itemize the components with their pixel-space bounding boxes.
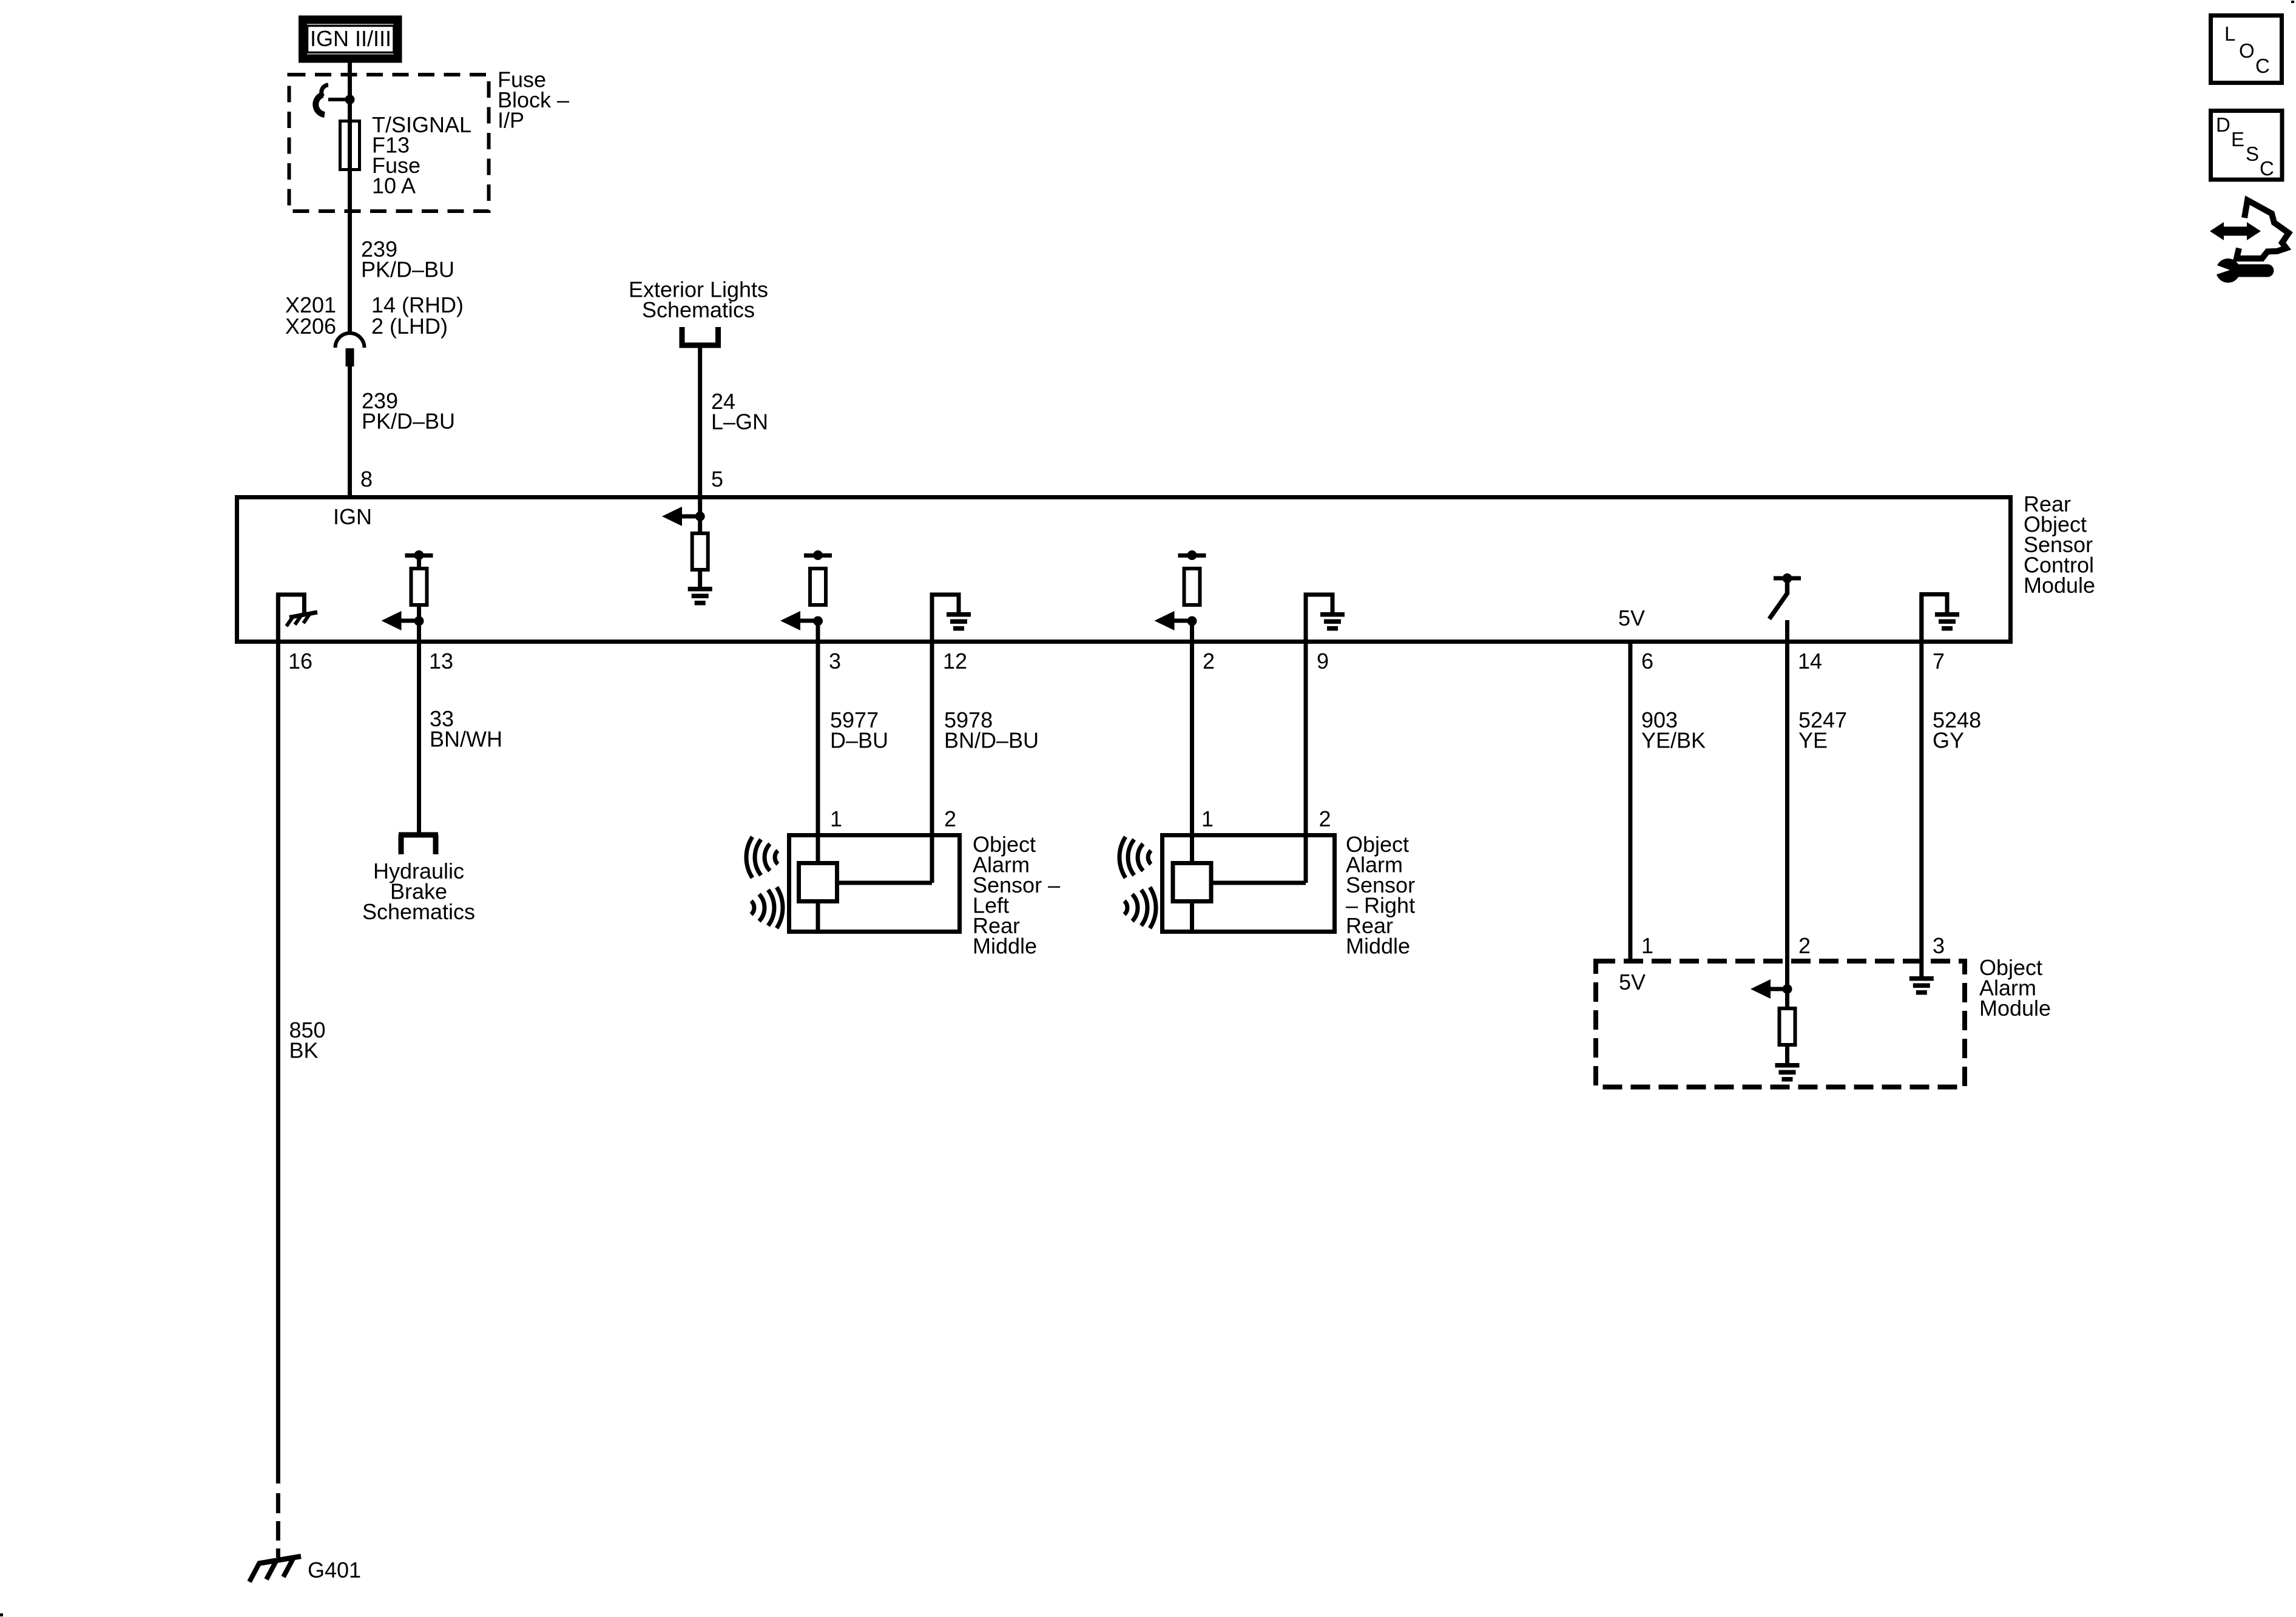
svg-text:Module: Module: [1979, 996, 2051, 1021]
internal ground at pin 12: [947, 612, 971, 631]
junction dot pin 5: [695, 511, 705, 521]
pin 5: [711, 467, 723, 491]
wire 5978 BN/D-BU from pin 12 to sensor: [930, 595, 934, 883]
svg-text:C: C: [2260, 157, 2274, 180]
svg-text:S: S: [2246, 143, 2259, 165]
junction dot pin 13 bottom: [414, 616, 424, 626]
pin 9 internal ground elbow: [1306, 595, 1332, 643]
wire from pin 9 to right sensor: [1304, 595, 1308, 883]
label Object Alarm Module: [1979, 955, 2051, 1021]
module pin 1: [1641, 933, 1653, 958]
svg-text:BK: BK: [289, 1038, 319, 1063]
label T/SIGNAL F13 Fuse 10 A: [372, 112, 471, 198]
svg-text:7: 7: [1933, 649, 1945, 673]
label connector X201 X206: [285, 292, 336, 339]
wire 903 YE/BK from pin 6: [1628, 641, 1632, 961]
label 5248 GY: [1933, 707, 1981, 753]
label Rear Object Sensor Control Module: [2024, 491, 2095, 598]
sensor element square: [1173, 863, 1211, 902]
junction dot pin 13 top: [414, 550, 424, 560]
module pin 3: [1933, 933, 1945, 958]
sensor internal link wire: [839, 881, 932, 885]
svg-text:5V: 5V: [1619, 970, 1646, 994]
label 24 L-GN: [711, 389, 768, 434]
internal signal arrow at pin 13: [382, 611, 419, 630]
internal resistor at pin 3: [810, 569, 826, 605]
pin 8: [360, 467, 373, 491]
junction dot pin 3 top: [813, 550, 823, 560]
svg-text:YE/BK: YE/BK: [1641, 728, 1706, 753]
label Object Alarm Sensor - Right Rear Middle: [1346, 832, 1415, 959]
wire 5247 YE from pin 14: [1785, 620, 1789, 1064]
fuse F13 T/SIGNAL 10 A: [340, 121, 360, 170]
pin 7: [1933, 649, 1945, 673]
pin 2 internal 5V tap bar: [1178, 553, 1206, 558]
pin 12 internal ground elbow: [932, 595, 959, 643]
svg-text:16: 16: [288, 649, 312, 673]
svg-text:13: 13: [429, 649, 453, 673]
junction dot pin 14 switch: [1783, 573, 1792, 583]
label Exterior Lights Schematics: [629, 277, 768, 323]
svg-text:G401: G401: [308, 1558, 361, 1582]
internal signal arrow in object alarm module: [1751, 979, 1788, 999]
internal resistor at pin 2: [1184, 569, 1200, 605]
internal signal arrow at pin 3: [780, 611, 818, 630]
svg-text:3: 3: [829, 649, 841, 673]
junction dot pin 3 bottom: [813, 616, 823, 626]
wire 850 BK from pin 16 to G401: [276, 595, 280, 1558]
power tag IGN II/III: [303, 20, 398, 59]
ultrasonic waves lower (right sensor): [1124, 887, 1156, 928]
junction dot at fuse input: [345, 95, 355, 104]
internal signal arrow at pin 5: [662, 507, 700, 526]
svg-text:Schematics: Schematics: [642, 297, 755, 322]
off-page connector to Hydraulic Brake Schematics: [399, 835, 438, 854]
wire 33 BN/WH from pin 13: [417, 643, 421, 832]
svg-text:Middle: Middle: [1346, 934, 1410, 959]
LOC reference box: [2211, 16, 2282, 83]
pin 6: [1641, 649, 1653, 673]
sensor pin 2: [944, 806, 956, 831]
svg-text:D–BU: D–BU: [830, 728, 888, 753]
Object Alarm Sensor - Right Rear Middle box: [1163, 836, 1335, 932]
label 903 YE/BK: [1641, 707, 1706, 753]
svg-text:9: 9: [1317, 649, 1329, 673]
label Fuse Block - I/P: [498, 67, 569, 133]
label 5247 YE: [1798, 707, 1847, 753]
pin 16: [288, 649, 312, 673]
wire 239 from IGN II/III tag through fuse F13 to connector X201: [348, 62, 352, 334]
net IGN inside module: [333, 504, 372, 529]
label pins 14 (RHD) 2 (LHD): [371, 292, 464, 339]
DESC reference box: [2211, 111, 2283, 180]
fuse block I/P dashed outline: [289, 75, 489, 211]
svg-text:L: L: [2224, 22, 2235, 45]
sensor pin 1: [1201, 806, 1214, 831]
svg-text:GY: GY: [1933, 728, 1964, 753]
sensor internal link wire: [1214, 881, 1306, 885]
wire 5977 D-BU from pin 3 to sensor: [816, 621, 820, 930]
svg-text:BN/WH: BN/WH: [430, 727, 502, 752]
svg-text:X206: X206: [285, 314, 336, 339]
internal resistor at pin 13: [411, 569, 427, 605]
svg-text:8: 8: [360, 467, 373, 491]
svg-text:E: E: [2231, 128, 2244, 150]
internal resistor at pin 5: [692, 533, 708, 570]
off-page connector from Exterior Lights: [680, 327, 721, 345]
svg-text:BN/D–BU: BN/D–BU: [944, 728, 1039, 753]
label Object Alarm Sensor - Left Rear Middle: [973, 832, 1060, 959]
pin 9: [1317, 649, 1329, 673]
svg-text:1: 1: [830, 806, 842, 831]
internal signal arrow at pin 2: [1155, 611, 1192, 630]
label 5977 D-BU: [830, 707, 888, 753]
ground G401 chassis symbol: [249, 1556, 301, 1582]
svg-text:5V: 5V: [1618, 606, 1645, 630]
pin 13 internal wire: [417, 555, 421, 643]
pin 3 internal 5V tap bar: [804, 553, 832, 558]
internal resistor in object alarm module: [1780, 1008, 1795, 1045]
svg-text:Schematics: Schematics: [362, 899, 475, 924]
pin 14: [1798, 649, 1822, 673]
svg-text:PK/D–BU: PK/D–BU: [361, 257, 454, 282]
svg-text:PK/D–BU: PK/D–BU: [362, 409, 455, 434]
wire from pin 2 to right sensor: [1190, 621, 1194, 930]
svg-text:3: 3: [1933, 933, 1945, 958]
corner mark bottom left: [0, 1613, 3, 1616]
svg-text:2: 2: [944, 806, 956, 831]
pin 3: [829, 649, 841, 673]
internal ground in object alarm module: [1775, 1063, 1800, 1082]
Object Alarm Module dashed box: [1596, 961, 1965, 1087]
ultrasonic waves upper (right sensor): [1119, 837, 1151, 878]
junction dot pin 2 bottom: [1187, 616, 1197, 626]
junction dot in object alarm module: [1783, 984, 1792, 994]
internal ground at pin 9: [1320, 612, 1345, 631]
svg-text:Middle: Middle: [973, 934, 1037, 959]
svg-text:YE: YE: [1798, 728, 1828, 753]
wire 5248 GY from pin 7: [1919, 595, 1923, 978]
internal ground at pin 5: [688, 587, 712, 606]
svg-text:5: 5: [711, 467, 723, 491]
pin 16 internal chassis ground elbow: [278, 595, 304, 641]
junction dot pin 2 top: [1187, 550, 1197, 560]
wire 24 L-GN to module pin 5: [698, 348, 702, 498]
label 239 PK/D-BU (upper): [361, 237, 454, 282]
label G401: [308, 1558, 361, 1582]
ultrasonic waves upper (left sensor): [746, 837, 778, 878]
net 5V inside module: [1618, 606, 1645, 630]
in-line connector symbol: [336, 333, 365, 366]
internal chassis ground symbol pin 16: [286, 612, 317, 626]
corner mark top right: [2291, 1, 2294, 3]
diagnostic jump icon (arrow and wrench): [2210, 200, 2289, 283]
Object Alarm Sensor - Left Rear Middle box: [789, 836, 960, 932]
svg-text:12: 12: [943, 649, 967, 673]
label 850 BK: [289, 1018, 326, 1063]
Rear Object Sensor Control Module box: [237, 498, 2011, 642]
sensor pin 2: [1319, 806, 1331, 831]
switch contact symbol in fuse block: [316, 85, 349, 115]
svg-text:I/P: I/P: [498, 108, 524, 133]
pin 2: [1203, 649, 1215, 673]
svg-text:10 A: 10 A: [372, 174, 416, 198]
svg-text:C: C: [2255, 55, 2270, 77]
ground for pin 3 of object alarm module: [1909, 976, 1934, 995]
sensor element square: [799, 863, 837, 902]
svg-text:O: O: [2239, 39, 2255, 62]
svg-text:IGN: IGN: [333, 504, 372, 529]
svg-text:Module: Module: [2024, 573, 2095, 598]
svg-text:2: 2: [1203, 649, 1215, 673]
pin 14 internal switch: [1769, 578, 1801, 619]
svg-text:14: 14: [1798, 649, 1822, 673]
module pin 2: [1798, 933, 1811, 958]
pin 7 internal ground elbow: [1922, 595, 1947, 642]
wire 239 PK/D-BU from connector to module pin 8: [348, 366, 352, 498]
pin 5 internal wire: [698, 499, 702, 587]
svg-text:2 (LHD): 2 (LHD): [371, 314, 448, 339]
ultrasonic waves lower (left sensor): [751, 887, 783, 928]
label 239 PK/D-BU (lower): [362, 388, 455, 434]
label Hydraulic Brake Schematics: [362, 859, 475, 924]
svg-text:6: 6: [1641, 649, 1653, 673]
internal ground at pin 7: [1935, 612, 1959, 631]
pin 13: [429, 649, 453, 673]
label 5978 BN/D-BU: [944, 707, 1039, 753]
svg-text:IGN II/III: IGN II/III: [310, 26, 391, 51]
sensor pin 1: [830, 806, 842, 831]
svg-text:1: 1: [1641, 933, 1653, 958]
svg-text:2: 2: [1798, 933, 1811, 958]
pin 12: [943, 649, 967, 673]
svg-text:D: D: [2216, 113, 2230, 136]
label 33 BN/WH: [430, 706, 502, 752]
pin 13 internal 5V tap bar: [405, 553, 433, 558]
svg-text:1: 1: [1201, 806, 1214, 831]
svg-text:2: 2: [1319, 806, 1331, 831]
net 5V inside object alarm module: [1619, 970, 1646, 994]
svg-text:L–GN: L–GN: [711, 410, 768, 434]
